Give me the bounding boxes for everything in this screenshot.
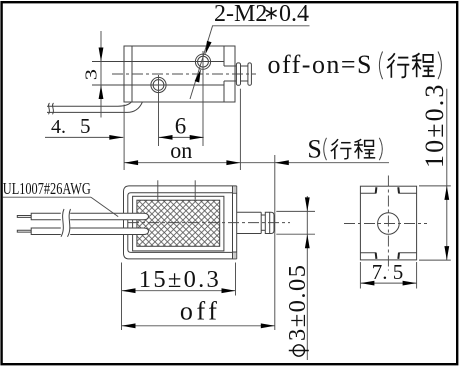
svg-text:3: 3: [82, 69, 101, 80]
svg-text:3±0.05: 3±0.05: [284, 265, 311, 341]
svg-text:5: 5: [393, 260, 404, 284]
svg-text:on: on: [170, 138, 192, 163]
svg-text:10±0.3: 10±0.3: [420, 85, 449, 168]
svg-text:15±0.3: 15±0.3: [139, 266, 219, 293]
svg-text:6: 6: [175, 114, 187, 139]
svg-text:7.: 7.: [372, 260, 388, 284]
svg-text:S: S: [307, 134, 321, 163]
svg-text:2-M2: 2-M2: [214, 1, 267, 27]
svg-text:0.4: 0.4: [279, 1, 309, 27]
svg-text:off-on=S: off-on=S: [268, 50, 372, 79]
svg-text:4.: 4.: [51, 116, 66, 138]
svg-text:5: 5: [80, 114, 91, 138]
svg-text:off: off: [180, 297, 217, 326]
svg-text:UL1007#26AWG: UL1007#26AWG: [3, 179, 91, 198]
